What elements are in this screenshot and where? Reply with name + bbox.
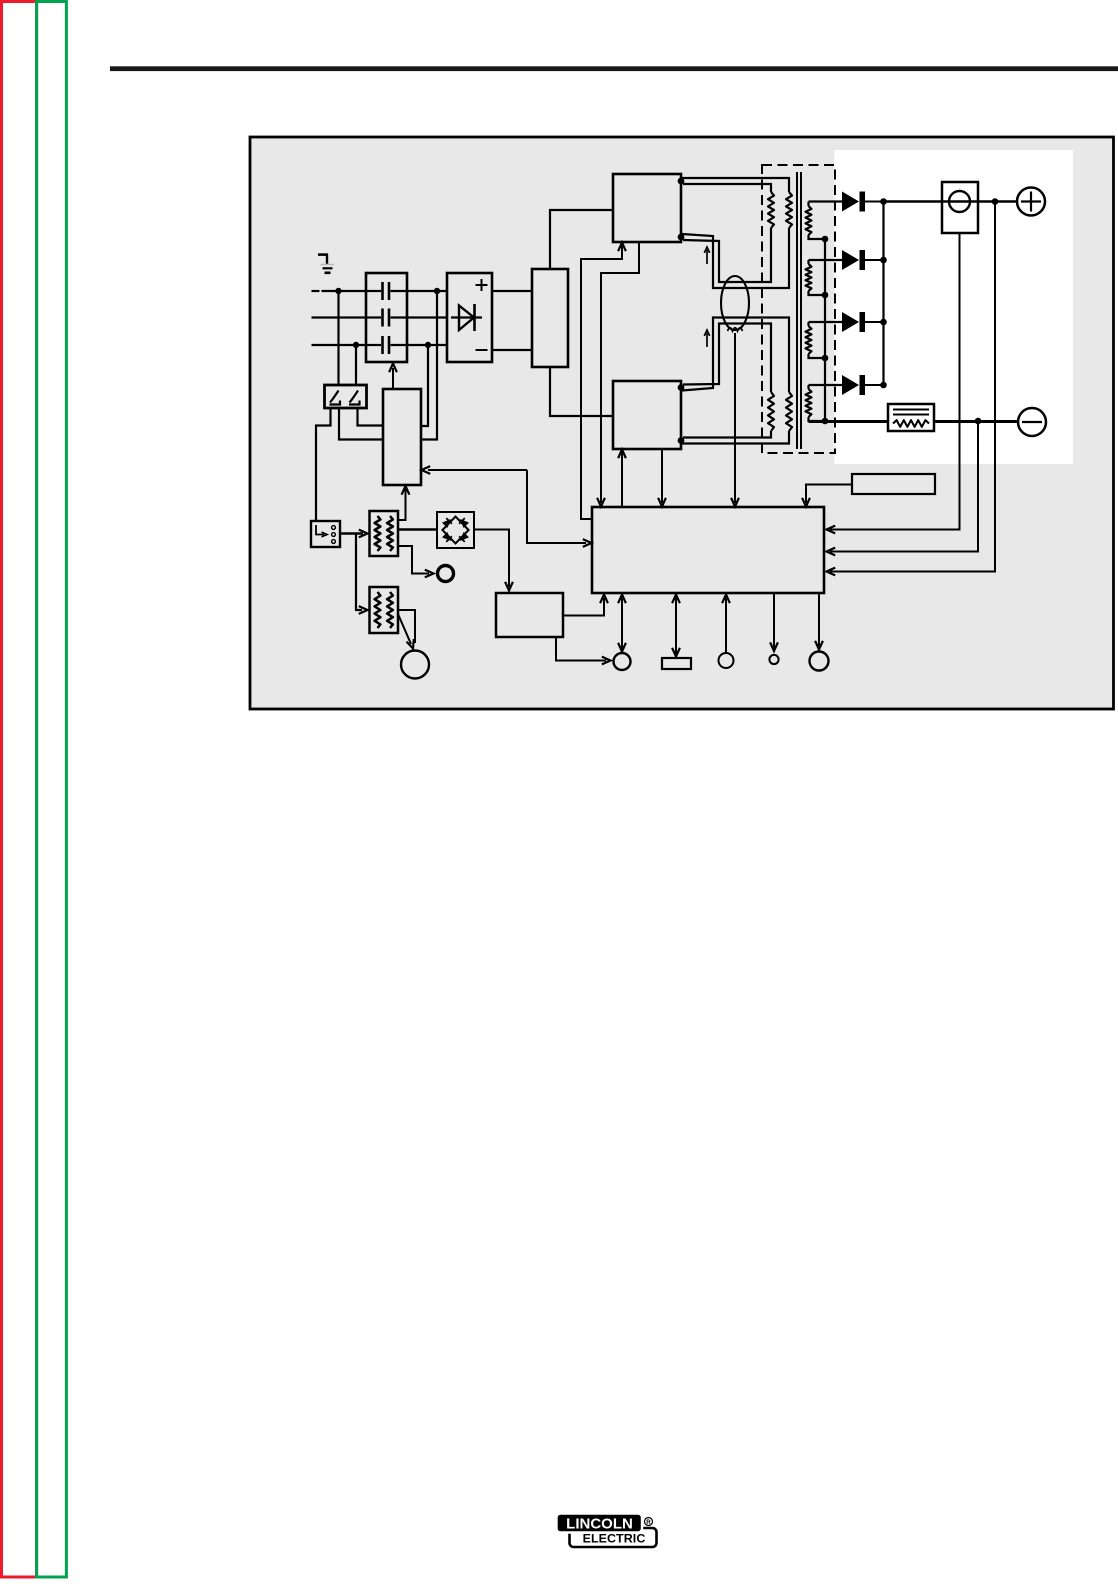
svg-text:LINCOLN: LINCOLN <box>566 1516 633 1533</box>
svg-text:R: R <box>646 1519 651 1526</box>
